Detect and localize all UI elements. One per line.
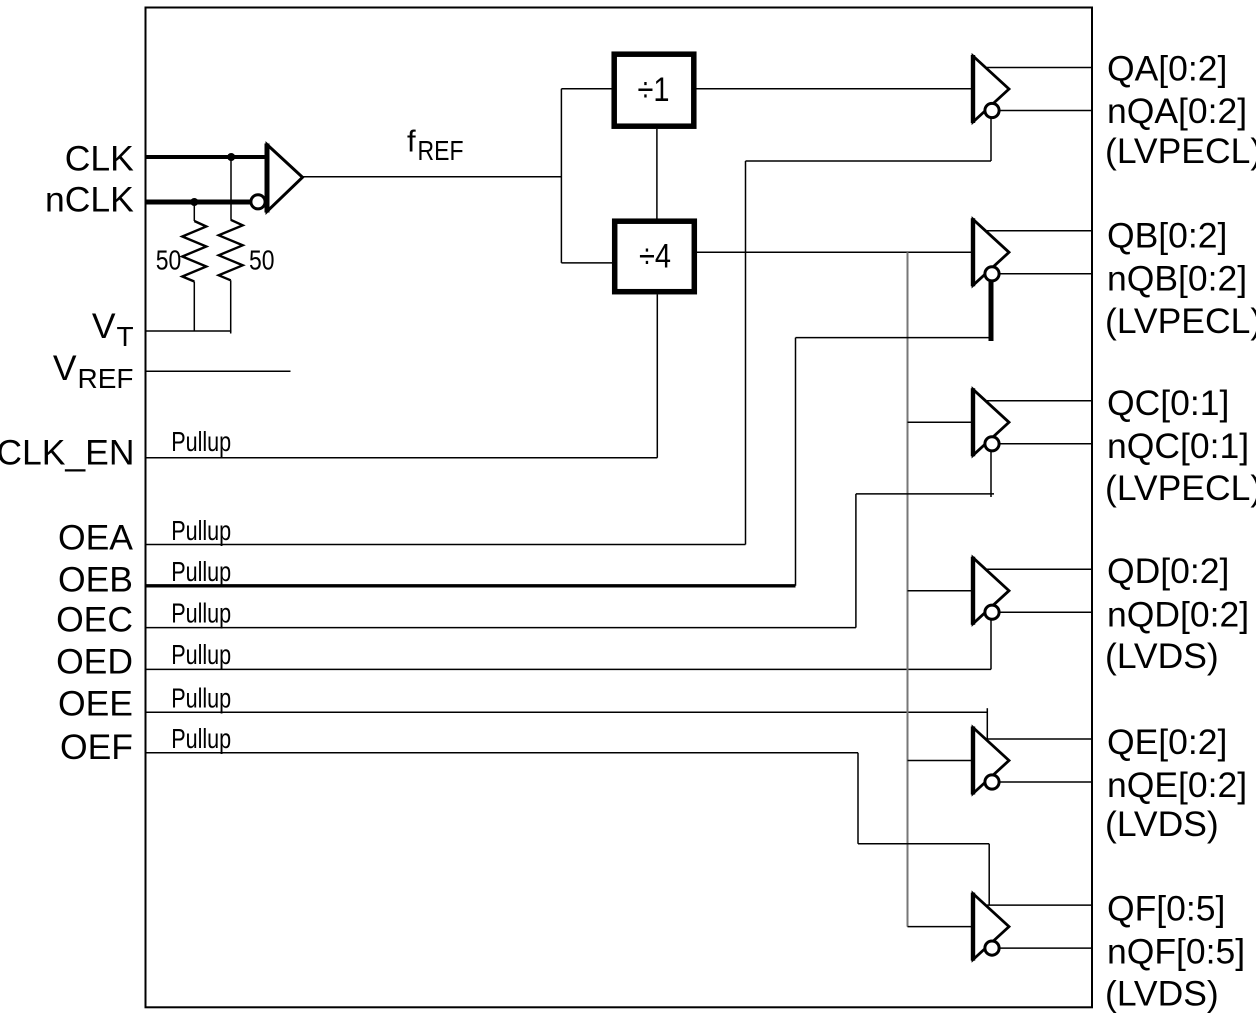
svg-text:nQB[0:2]: nQB[0:2] xyxy=(1107,259,1247,299)
wire bus tap to buffer QF input xyxy=(908,926,974,928)
output buffer QB left edge (bold) xyxy=(971,218,975,286)
output buffer QA left edge (bold) xyxy=(971,55,975,123)
resistor R1 50 (left, on nCLK) xyxy=(182,221,206,282)
junction dot on nCLK xyxy=(190,198,198,206)
svg-text:nQE[0:2]: nQE[0:2] xyxy=(1107,765,1247,805)
svg-text:OEC: OEC xyxy=(56,600,133,640)
svg-text:OEA: OEA xyxy=(58,518,133,558)
output buffer QA triangle xyxy=(973,56,1009,122)
wire OEE into buffer QE top (vertical) xyxy=(986,708,988,739)
input buffer U1 triangle xyxy=(267,145,303,212)
wire OEC into buffer QC bubble (vertical) xyxy=(990,452,992,498)
svg-text:QF[0:5]: QF[0:5] xyxy=(1107,888,1225,928)
output buffer QB inverting bubble xyxy=(985,267,999,281)
wire nQE output xyxy=(1000,781,1093,783)
svg-text:QA[0:2]: QA[0:2] xyxy=(1107,49,1227,89)
svg-text:(LVDS): (LVDS) xyxy=(1105,804,1219,844)
wire OEA riser (vertical) xyxy=(745,161,747,545)
svg-text:Pullup: Pullup xyxy=(171,723,231,754)
wire CLK_EN xyxy=(146,457,657,459)
svg-text:50: 50 xyxy=(249,245,275,276)
wire bus tap to buffer QC input xyxy=(908,421,974,423)
output buffer QF inverting bubble xyxy=(985,941,999,955)
wire bus tap to buffer QE input xyxy=(908,760,974,762)
svg-text:QE[0:2]: QE[0:2] xyxy=(1107,722,1227,762)
wire OEB (bold) xyxy=(146,584,796,587)
svg-text:Pullup: Pullup xyxy=(171,639,231,670)
output buffer QE triangle xyxy=(973,728,1009,794)
svg-text:OEF: OEF xyxy=(60,727,133,767)
svg-text:÷1: ÷1 xyxy=(638,71,670,109)
wire OEA into buffer QA bubble (vertical) xyxy=(990,119,992,162)
output buffer QC left edge (bold) xyxy=(971,388,975,456)
svg-text:V: V xyxy=(92,306,116,346)
svg-text:(LVDS): (LVDS) xyxy=(1105,974,1219,1014)
wire OEB riser (vertical) xyxy=(795,338,797,586)
output buffer QF left edge (bold) xyxy=(971,893,975,961)
svg-text:QB[0:2]: QB[0:2] xyxy=(1107,216,1227,256)
wire OEF riser (vertical) xyxy=(857,753,859,844)
wire QC output xyxy=(987,400,1092,402)
wire VREF stub xyxy=(146,370,291,372)
svg-text:OEE: OEE xyxy=(58,684,133,724)
wire nCLK xyxy=(146,200,252,205)
wire chain between /1 and /4 xyxy=(656,129,658,219)
output buffer QD triangle xyxy=(973,558,1009,624)
svg-text:Pullup: Pullup xyxy=(171,597,231,628)
svg-text:Pullup: Pullup xyxy=(171,556,231,587)
svg-text:CLK_EN: CLK_EN xyxy=(0,432,135,472)
output buffer QE inverting bubble xyxy=(985,775,999,789)
svg-text:(LVPECL): (LVPECL) xyxy=(1105,468,1256,508)
output buffer QD inverting bubble xyxy=(985,605,999,619)
wire OEC to buffer QC (horizontal) xyxy=(856,493,994,495)
input buffer U1 left edge (bold) xyxy=(265,144,270,213)
wire CLK xyxy=(146,155,268,159)
wire /1 output to buffer QA input xyxy=(697,88,974,90)
svg-text:QD[0:2]: QD[0:2] xyxy=(1107,551,1229,591)
wire QF output xyxy=(987,904,1092,906)
divider block /1 xyxy=(614,54,694,126)
wire nQF output xyxy=(1000,947,1093,949)
wire CLK junction to resistor R2 xyxy=(230,157,232,220)
wire OEB into buffer QB bubble (bold vertical) xyxy=(989,282,994,342)
svg-text:÷4: ÷4 xyxy=(639,238,671,276)
wire into divider /4 xyxy=(561,262,614,264)
svg-text:QC[0:1]: QC[0:1] xyxy=(1107,383,1229,423)
svg-text:f: f xyxy=(407,124,416,159)
wire OEE xyxy=(146,711,987,713)
svg-text:Pullup: Pullup xyxy=(171,515,231,546)
wire nQD output xyxy=(1000,611,1093,613)
wire OEF lateral (horizontal) xyxy=(858,843,989,845)
output buffer QD left edge (bold) xyxy=(971,557,975,625)
svg-text:nQD[0:2]: nQD[0:2] xyxy=(1107,595,1249,635)
svg-text:nQA[0:2]: nQA[0:2] xyxy=(1107,91,1247,131)
svg-text:nCLK: nCLK xyxy=(45,180,134,220)
svg-text:(LVPECL): (LVPECL) xyxy=(1105,301,1256,341)
wire /4 output to buffer QB input xyxy=(697,251,973,253)
output buffer QB triangle xyxy=(973,219,1009,285)
divider block /4 xyxy=(615,221,695,292)
svg-text:OEB: OEB xyxy=(58,560,133,600)
wire divider input split (vertical) xyxy=(560,89,562,263)
svg-text:T: T xyxy=(117,321,134,352)
output buffer QC triangle xyxy=(973,389,1009,455)
wire OEC xyxy=(146,627,856,629)
wire nQB output xyxy=(1000,273,1093,275)
svg-text:REF: REF xyxy=(418,135,464,166)
wire resistor R1 to VT rail xyxy=(193,282,195,332)
wire OEB to buffer QB (horizontal) xyxy=(796,337,992,339)
wire OED into buffer QD bubble (vertical) xyxy=(990,620,992,669)
wire OEF xyxy=(146,752,858,754)
wire OEA to buffer QA (horizontal) xyxy=(746,160,992,162)
chip outline box xyxy=(146,8,1093,1008)
svg-text:CLK: CLK xyxy=(65,139,134,179)
wire /4 distribution bus (gray vertical) xyxy=(907,252,909,926)
wire OED xyxy=(146,668,991,670)
svg-text:Pullup: Pullup xyxy=(171,426,231,457)
svg-text:Pullup: Pullup xyxy=(171,683,231,714)
resistor R2 50 (right, on CLK) xyxy=(219,220,243,280)
svg-text:OED: OED xyxy=(56,642,133,682)
svg-text:REF: REF xyxy=(78,363,134,394)
wire into divider /1 xyxy=(561,88,614,90)
wire nQA output xyxy=(1000,110,1093,112)
wire nCLK junction to resistor R1 xyxy=(193,202,195,221)
wire QD output xyxy=(987,568,1092,570)
input buffer U1 inverting bubble on nCLK input xyxy=(251,195,265,209)
wire QB output xyxy=(987,230,1092,232)
svg-text:nQF[0:5]: nQF[0:5] xyxy=(1107,932,1245,972)
svg-text:nQC[0:1]: nQC[0:1] xyxy=(1107,426,1249,466)
output buffer QA inverting bubble xyxy=(985,103,999,117)
junction dot on CLK xyxy=(227,153,235,161)
wire CLK_EN up to divider /4 xyxy=(656,295,658,458)
wire OEA xyxy=(146,544,746,546)
wire bus tap to buffer QD input xyxy=(908,590,974,592)
wire OEF into buffer QF top (vertical) xyxy=(988,844,990,905)
svg-text:(LVPECL): (LVPECL) xyxy=(1105,131,1256,171)
wire QA output xyxy=(987,67,1092,69)
output buffer QC inverting bubble xyxy=(985,437,999,451)
svg-text:(LVDS): (LVDS) xyxy=(1105,636,1219,676)
wire fREF from input buffer to divider split xyxy=(303,176,562,178)
wire VT xyxy=(146,330,232,332)
wire OEC riser (vertical) xyxy=(855,494,857,628)
svg-text:50: 50 xyxy=(156,245,182,276)
output buffer QF triangle xyxy=(973,894,1009,960)
output buffer QE left edge (bold) xyxy=(971,727,975,795)
wire QE output xyxy=(987,738,1092,740)
wire resistor R2 to VT rail xyxy=(230,280,232,333)
svg-text:V: V xyxy=(53,348,77,388)
wire nQC output xyxy=(1000,443,1093,445)
